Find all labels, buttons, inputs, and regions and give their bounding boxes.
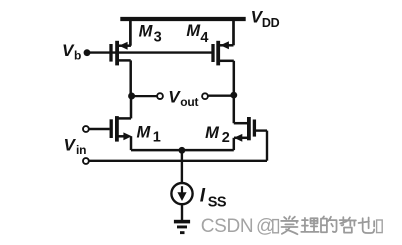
svg-text:1: 1 [153, 130, 161, 146]
svg-text:I: I [200, 186, 206, 207]
svg-text:in: in [76, 143, 86, 157]
svg-text:M: M [139, 23, 154, 41]
svg-text:M: M [186, 22, 201, 40]
svg-text:out: out [180, 95, 198, 109]
svg-text:M: M [137, 124, 152, 142]
svg-text:4: 4 [200, 30, 208, 46]
svg-text:3: 3 [154, 29, 162, 45]
svg-text:b: b [74, 49, 81, 63]
svg-text:CSDN: CSDN [201, 216, 253, 237]
svg-text:2: 2 [222, 130, 230, 146]
svg-text:V: V [64, 135, 77, 154]
svg-text:SS: SS [208, 194, 227, 210]
svg-text:DD: DD [262, 16, 280, 30]
svg-text:M: M [205, 124, 220, 142]
